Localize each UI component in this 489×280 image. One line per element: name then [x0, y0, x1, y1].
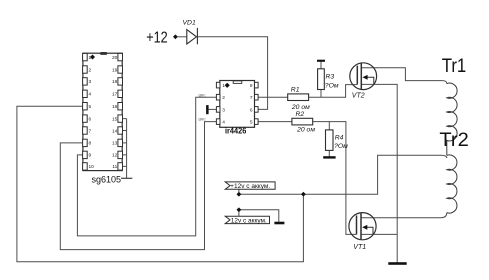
wire sg6105 pin5 loop to rail junction [17, 106, 304, 262]
diode VD1 [187, 28, 198, 44]
svg-text:20 ом: 20 ом [296, 127, 315, 134]
svg-text:VT2: VT2 [352, 93, 365, 100]
svg-text:ШИМ 2: ШИМ 2 [199, 117, 206, 121]
svg-text:7: 7 [89, 128, 92, 134]
wire ir4426 pin7 to R1 [258, 96, 288, 98]
terminal bar R4 bottom [323, 156, 335, 158]
svg-text:12v с аккум.: 12v с аккум. [231, 218, 267, 225]
svg-text:1: 1 [222, 83, 225, 89]
wire R4 top lead [328, 122, 330, 130]
wire +12 to diode [178, 36, 187, 38]
wire box1 stub [238, 189, 240, 192]
svg-text:+12v с аккум.: +12v с аккум. [230, 183, 270, 190]
svg-text:6: 6 [250, 107, 253, 113]
svg-text:13: 13 [112, 141, 118, 147]
wire R1 to VT2 gate [309, 85, 358, 98]
flag box 12v battery [225, 216, 269, 223]
svg-text:Tr1: Tr1 [442, 55, 467, 77]
inductor Tr1 winding [447, 83, 457, 155]
node diamond +12 [173, 34, 178, 39]
svg-text:VT1: VT1 [353, 244, 366, 251]
wire sg6105 pin9 to ir4426 pin2 [77, 97, 216, 236]
wire VT2 source to ground [361, 84, 397, 262]
svg-text:17: 17 [112, 92, 118, 98]
IC U2 ir4426 notch [233, 81, 242, 84]
wire ir4426 pin5 to R2 [258, 121, 292, 123]
resistor R2 [292, 118, 313, 125]
ground [388, 262, 406, 265]
terminal bar R3 top [317, 60, 325, 62]
IC U1 sg6105 pin boxes left [83, 53, 88, 170]
svg-text:5: 5 [250, 120, 253, 126]
svg-text:?Ом: ?Ом [325, 82, 339, 89]
svg-text:ir4426: ir4426 [225, 126, 246, 136]
svg-text:10: 10 [89, 164, 95, 170]
IC U2 ir4426 pin numbers [222, 83, 253, 126]
IC U1 sg6105 pin numbers [89, 55, 118, 170]
svg-text:1: 1 [89, 55, 92, 61]
wire R3 top lead [320, 62, 322, 69]
IC U2 ir4426 pin boxes right [255, 82, 259, 124]
wire R3 bottom lead [320, 90, 322, 98]
svg-text:20: 20 [112, 55, 118, 61]
wire box2 stub [238, 212, 240, 216]
svg-text:R4: R4 [335, 135, 344, 142]
resistor R1 [288, 94, 309, 101]
node T-bar sg6105 common [121, 177, 132, 179]
svg-text:sg6105: sg6105 [92, 175, 122, 185]
svg-text:?Ом: ?Ом [334, 143, 348, 150]
IC U1 sg6105 pin boxes right [118, 53, 123, 170]
resistor R4 [326, 130, 334, 151]
svg-text:2: 2 [89, 67, 92, 73]
wire diode cathode to ir4426 pin6 [197, 37, 267, 110]
IC U1 sg6105 body [83, 53, 122, 170]
IC U2 ir4426 pin1 mark [225, 83, 230, 88]
svg-text:R3: R3 [326, 74, 335, 81]
wire VT2 drain to Tr1 top [361, 68, 447, 84]
wire R2 to VT1 gate [313, 122, 357, 235]
svg-text:12: 12 [112, 153, 118, 159]
node diamond rail1 [237, 192, 242, 197]
svg-text:7: 7 [250, 95, 253, 101]
svg-text:3: 3 [89, 79, 92, 85]
IC U1 sg6105 pin1 mark [90, 55, 95, 60]
wire VT1 source [361, 233, 397, 235]
svg-text:18: 18 [112, 79, 118, 85]
node diamond rail2 [237, 207, 242, 212]
svg-text:ШИМ 1: ШИМ 1 [199, 93, 206, 97]
inductor Tr2 winding [447, 155, 457, 213]
svg-text:R1: R1 [291, 86, 300, 93]
svg-text:3: 3 [222, 107, 225, 113]
wire R4 bottom lead [328, 150, 330, 156]
svg-text:+12: +12 [146, 30, 168, 47]
svg-text:8: 8 [250, 83, 253, 89]
svg-text:20 ом: 20 ом [291, 104, 310, 111]
svg-text:2: 2 [222, 95, 225, 101]
svg-text:15: 15 [112, 116, 118, 122]
IC U2 ir4426 body [220, 81, 255, 128]
svg-text:19: 19 [112, 67, 118, 73]
svg-text:VD1: VD1 [183, 19, 196, 26]
svg-text:16: 16 [112, 104, 118, 110]
svg-text:R2: R2 [296, 111, 305, 118]
transistor VT2 [350, 63, 377, 90]
svg-text:9: 9 [89, 153, 92, 159]
wire sg6105 pin8 to ir4426 pin4 [60, 122, 216, 250]
svg-text:5: 5 [89, 104, 92, 110]
svg-text:8: 8 [89, 141, 92, 147]
svg-text:Tr2: Tr2 [439, 129, 468, 151]
node diamond rail junction [301, 192, 306, 197]
IC U2 ir4426 pin boxes left [216, 82, 220, 124]
wire +12v battery rail to Tr center tap [239, 155, 447, 194]
svg-text:14: 14 [112, 128, 118, 134]
transistor VT1 [349, 213, 376, 240]
IC U1 sg6105 notch [100, 52, 107, 55]
svg-text:4: 4 [89, 92, 92, 98]
svg-text:11: 11 [112, 164, 117, 170]
svg-text:6: 6 [89, 116, 92, 122]
flag box +12v battery [225, 182, 275, 189]
wire VT1 drain to Tr2 bottom [361, 213, 447, 218]
wire ir4426 pin3 stub [208, 108, 216, 110]
resistor R3 [318, 69, 325, 90]
terminal bar ir4426 pin3 [206, 105, 209, 114]
wire sg6105 right pins common [122, 119, 126, 179]
wire rail2 to terminal [239, 210, 279, 222]
terminal bar rail2 [274, 222, 284, 225]
